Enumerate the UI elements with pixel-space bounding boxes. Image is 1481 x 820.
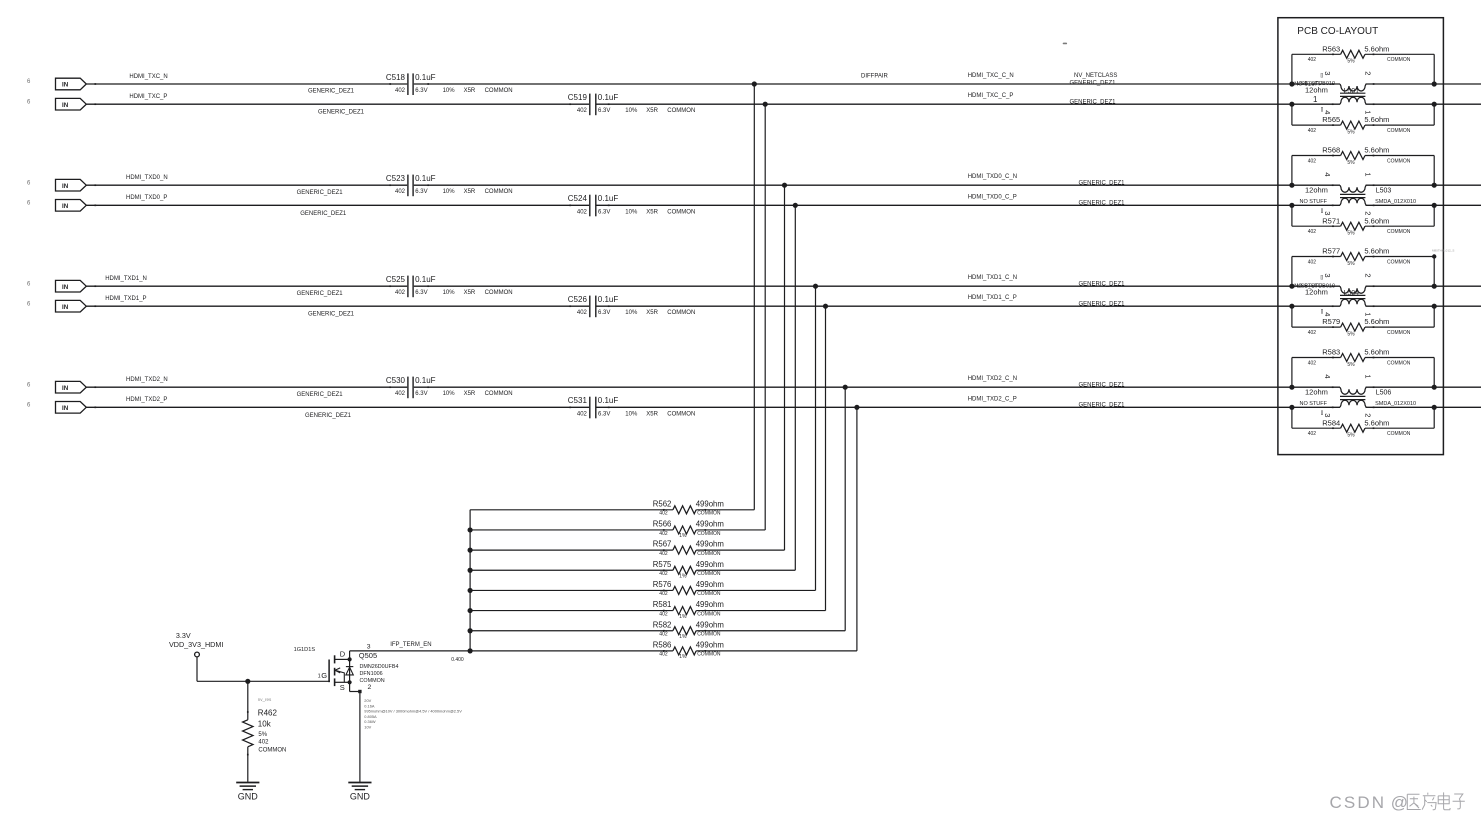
svg-text:5.6ohm: 5.6ohm: [1364, 418, 1389, 427]
svg-text:COMMON: COMMON: [697, 632, 721, 638]
svg-text:HDMI_TXD1_C_P: HDMI_TXD1_C_P: [968, 295, 1017, 301]
svg-text:6.3V: 6.3V: [598, 108, 610, 114]
svg-text:COMMON: COMMON: [1387, 128, 1411, 134]
svg-text:402: 402: [659, 531, 668, 537]
svg-text:3: 3: [1323, 211, 1332, 215]
svg-text:R563: R563: [1322, 44, 1340, 53]
svg-text:1: 1: [1313, 95, 1318, 104]
resistor R565 5.6ohm: [1308, 115, 1411, 135]
junction R579 riser / wire P right: [1432, 304, 1437, 309]
junction R584 riser / wire P right: [1432, 405, 1437, 410]
svg-text:R576: R576: [653, 580, 672, 589]
svg-text:M80THD_012_S: M80THD_012_S: [1432, 249, 1454, 253]
svg-text:1%: 1%: [679, 634, 687, 640]
svg-text:IN: IN: [62, 183, 69, 190]
svg-text:4: 4: [1323, 110, 1332, 114]
junction R583 riser / wire N right: [1432, 385, 1437, 390]
svg-text:COMMON: COMMON: [697, 531, 721, 537]
svg-text:HDMI_TXD0_P: HDMI_TXD0_P: [126, 195, 167, 201]
svg-text:C525: C525: [386, 275, 406, 284]
svg-text:0.16A: 0.16A: [364, 703, 375, 708]
svg-text:402: 402: [659, 551, 668, 557]
wire HDMI_TXD0_N port to C523: [86, 184, 407, 186]
svg-text:0.1uF: 0.1uF: [415, 73, 436, 82]
svg-text:HDMI_TXD2_C_N: HDMI_TXD2_C_N: [968, 376, 1017, 382]
svg-text:HDMI_TXD0_C_N: HDMI_TXD0_C_N: [968, 174, 1017, 180]
svg-text:1: 1: [1364, 312, 1373, 316]
svg-text:COMMON: COMMON: [1387, 360, 1411, 366]
svg-text:0.1uF: 0.1uF: [598, 295, 619, 304]
svg-text:HDMI_TXD1_C_N: HDMI_TXD1_C_N: [968, 275, 1017, 281]
svg-text:COMMON: COMMON: [1387, 330, 1411, 336]
svg-text:R565: R565: [1322, 115, 1340, 124]
svg-text:NO STUFF: NO STUFF: [1300, 199, 1328, 205]
svg-text:2: 2: [368, 684, 372, 691]
svg-text:IFP_TERM_EN: IFP_TERM_EN: [390, 642, 431, 648]
wire termination drop from wire 6: [825, 306, 827, 610]
capacitor C524: [568, 194, 696, 216]
wire R568 right riser: [1433, 156, 1435, 186]
svg-text:995mohm@10V / 3000mohm@4.5V /: 995mohm@10V / 3000mohm@4.5V / 4000mohm@2…: [364, 709, 462, 714]
port IN HDMI_TXD0_N: [55, 179, 96, 191]
wire R567 right lead: [696, 549, 784, 551]
svg-text:R584: R584: [1322, 418, 1340, 427]
svg-text:5.6ohm: 5.6ohm: [1364, 348, 1389, 357]
transistor Q505 DMN26D0UFB4: [318, 643, 399, 692]
ground GND under Q505: [348, 783, 371, 802]
resistor R562 499ohm: [653, 499, 724, 516]
wire R565 rail left: [1292, 124, 1341, 126]
svg-text:HDMI_TXD1_P: HDMI_TXD1_P: [105, 296, 146, 302]
svg-text:10%: 10%: [625, 108, 638, 114]
junction bus / R586: [468, 648, 473, 653]
port IN HDMI_TXD0_P: [55, 200, 96, 212]
svg-text:X5R: X5R: [646, 209, 658, 215]
wire R462 to GND: [247, 747, 249, 782]
svg-text:IN: IN: [62, 405, 69, 412]
wire R584 left riser: [1291, 407, 1293, 428]
svg-text:10%: 10%: [443, 391, 456, 397]
svg-text:5.6ohm: 5.6ohm: [1364, 247, 1389, 256]
svg-text:COMMON: COMMON: [697, 551, 721, 557]
svg-text:5%: 5%: [1347, 332, 1355, 338]
svg-text:6.3V: 6.3V: [415, 290, 427, 296]
svg-text:GENERIC_DEZ1: GENERIC_DEZ1: [1079, 201, 1126, 207]
wire R584 rail right: [1365, 427, 1434, 429]
svg-text:COMMON: COMMON: [1387, 57, 1411, 63]
wire R581 right lead: [696, 610, 825, 612]
wire R575 right lead: [696, 569, 795, 571]
wire termination drop from wire 1: [753, 84, 755, 510]
svg-text:GND: GND: [238, 792, 259, 802]
junction bus / R582: [468, 628, 473, 633]
power flag 3.3V VDD_3V3_HDMI: [169, 631, 223, 681]
svg-text:3: 3: [1323, 413, 1332, 417]
resistor R571 5.6ohm: [1308, 216, 1411, 236]
svg-text:0.1uF: 0.1uF: [415, 174, 436, 183]
inductor L503 common-mode choke: [1300, 172, 1417, 215]
svg-text:499ohm: 499ohm: [696, 580, 724, 589]
wire HDMI_TXD2_P C531 to choke: [597, 406, 1341, 408]
svg-text:10%: 10%: [443, 88, 456, 94]
svg-text:GENERIC_DEZ1: GENERIC_DEZ1: [318, 110, 365, 116]
wire R577 rail left: [1292, 256, 1341, 258]
wire HDMI_TXC_N port to C518: [86, 83, 407, 85]
wire HDMI_TXD1_N port to C525: [86, 285, 407, 287]
svg-text:10k: 10k: [258, 720, 272, 729]
svg-text:5.6ohm: 5.6ohm: [1364, 44, 1389, 53]
svg-text:X5R: X5R: [464, 290, 476, 296]
junction R583 riser / wire N: [1289, 385, 1294, 390]
svg-text:L506: L506: [1376, 389, 1392, 396]
svg-text:DFN1006: DFN1006: [360, 671, 383, 677]
capacitor C518: [386, 73, 513, 95]
svg-text:5.6ohm: 5.6ohm: [1364, 146, 1389, 155]
capacitor C525: [386, 275, 513, 297]
svg-text:SMDA_012X010: SMDA_012X010: [1375, 401, 1416, 407]
junction HDMI_TXD1_P / termination drop: [823, 304, 828, 309]
svg-text:3: 3: [1323, 71, 1332, 75]
inductor L506 common-mode choke: [1300, 374, 1417, 417]
svg-text:COMMON: COMMON: [697, 591, 721, 597]
wire R563 rail left: [1292, 53, 1341, 55]
svg-text:3.3V: 3.3V: [176, 631, 191, 640]
wire HDMI_TXD1_N choke to right edge: [1366, 285, 1481, 287]
inductor L504 common-mode choke: [1294, 273, 1374, 316]
svg-text:20V: 20V: [364, 698, 371, 703]
resistor R563 5.6ohm: [1308, 44, 1411, 64]
port IN HDMI_TXD1_P: [55, 300, 96, 312]
wire termination drop from wire 2: [764, 104, 766, 530]
resistor R566 499ohm: [653, 520, 724, 540]
resistor R581 499ohm: [653, 600, 724, 620]
svg-text:402: 402: [1308, 431, 1317, 437]
svg-text:Q505: Q505: [359, 651, 377, 660]
wire R563 right riser: [1433, 54, 1435, 84]
capacitor C531: [568, 396, 696, 418]
svg-text:VDD_3V3_HDMI: VDD_3V3_HDMI: [169, 640, 223, 649]
svg-text:HDMI_TXC_P: HDMI_TXC_P: [129, 94, 167, 100]
resistor R583 5.6ohm: [1308, 348, 1411, 368]
svg-text:COMMON: COMMON: [258, 748, 286, 754]
svg-text:10%: 10%: [443, 290, 456, 296]
svg-text:COMMON: COMMON: [1387, 431, 1411, 437]
svg-text:HDMI_TXD2_N: HDMI_TXD2_N: [126, 377, 168, 383]
svg-text:5%: 5%: [1347, 59, 1355, 65]
svg-text:402: 402: [577, 411, 588, 417]
wire R565 rail right: [1365, 124, 1434, 126]
svg-text:402: 402: [577, 209, 588, 215]
resistor R568 5.6ohm: [1308, 146, 1411, 166]
svg-text:402: 402: [1308, 128, 1317, 134]
wire HDMI_TXD1_N C525 to choke: [414, 285, 1340, 287]
junction bus / R566: [468, 527, 473, 532]
svg-text:D: D: [340, 649, 346, 658]
svg-text:402: 402: [659, 571, 668, 577]
wire R577 left riser: [1291, 257, 1293, 287]
svg-text:1%: 1%: [679, 533, 687, 539]
wire HDMI_TXD2_P port to C531: [86, 406, 589, 408]
svg-text:GENERIC_DEZ1: GENERIC_DEZ1: [1070, 99, 1117, 105]
svg-text:5%: 5%: [258, 732, 267, 738]
wire HDMI_TXD0_P choke to right edge: [1366, 204, 1481, 206]
svg-text:COMMON: COMMON: [697, 511, 721, 517]
svg-text:HDMI_TXC_C_N: HDMI_TXC_C_N: [968, 73, 1014, 79]
svg-text:X5R: X5R: [464, 88, 476, 94]
wire HDMI_TXD0_P port to C524: [86, 204, 589, 206]
svg-text:2: 2: [1364, 413, 1373, 417]
svg-text:5%: 5%: [1347, 433, 1355, 439]
svg-text:R581: R581: [653, 600, 672, 609]
svg-text:1: 1: [1364, 374, 1373, 378]
svg-text:C524: C524: [568, 194, 588, 203]
junction R584 riser / wire P: [1289, 405, 1294, 410]
svg-text:GENERIC_DEZ1: GENERIC_DEZ1: [1079, 403, 1126, 409]
svg-text:GENERIC_DEZ1: GENERIC_DEZ1: [308, 89, 355, 95]
junction R571 riser / wire P right: [1432, 203, 1437, 208]
svg-text:1: 1: [318, 673, 321, 679]
svg-text:R577: R577: [1322, 247, 1340, 256]
svg-text:GENERIC_DEZ1: GENERIC_DEZ1: [1070, 80, 1117, 86]
svg-text:R583: R583: [1322, 348, 1340, 357]
svg-text:10%: 10%: [625, 310, 638, 316]
svg-text:COMMON: COMMON: [485, 290, 513, 296]
resistor R582 499ohm: [653, 620, 724, 640]
wire R581 left lead: [470, 610, 673, 612]
svg-text:C523: C523: [386, 174, 406, 183]
svg-text:R566: R566: [653, 520, 672, 529]
svg-text:499ohm: 499ohm: [696, 520, 724, 529]
wire R579 left riser: [1291, 306, 1293, 327]
svg-text:6.3V: 6.3V: [415, 391, 427, 397]
svg-text:402: 402: [577, 310, 588, 316]
port IN HDMI_TXD1_N: [55, 280, 96, 292]
svg-text:4: 4: [1323, 172, 1332, 176]
junction R568 riser / wire N right: [1432, 183, 1437, 188]
svg-text:C518: C518: [386, 73, 406, 82]
svg-text:GENERIC_DEZ1: GENERIC_DEZ1: [305, 413, 352, 419]
svg-text:R575: R575: [653, 560, 672, 569]
capacitor C526: [568, 295, 696, 317]
svg-text:R586: R586: [653, 640, 672, 649]
svg-text:IN: IN: [62, 385, 69, 392]
svg-text:5%: 5%: [1347, 160, 1355, 166]
svg-text:COMMON: COMMON: [697, 611, 721, 617]
svg-text:IN: IN: [62, 102, 69, 109]
svg-text:402: 402: [659, 652, 668, 658]
resistor R586 499ohm: [653, 640, 724, 660]
svg-text:C519: C519: [568, 93, 588, 102]
svg-text:R462: R462: [258, 709, 278, 718]
svg-text:6.3V: 6.3V: [415, 88, 427, 94]
svg-text:402: 402: [659, 511, 668, 517]
svg-text:X5R: X5R: [646, 411, 658, 417]
svg-text:0.1uF: 0.1uF: [598, 396, 619, 405]
svg-text:R579: R579: [1322, 317, 1340, 326]
svg-text:L504: L504: [1344, 290, 1360, 297]
wire R571 rail left: [1292, 225, 1341, 227]
svg-text:402: 402: [1308, 330, 1317, 336]
capacitor C530: [386, 376, 513, 398]
svg-text:402: 402: [395, 391, 406, 397]
junction R568 riser / wire N: [1289, 183, 1294, 188]
svg-text:402: 402: [659, 611, 668, 617]
watermark CSDN @medical electronics: [1330, 792, 1465, 812]
svg-text:499ohm: 499ohm: [696, 540, 724, 549]
svg-text:R562: R562: [653, 499, 672, 508]
wire termination drop from wire 8: [856, 407, 858, 651]
wire R582 right lead: [696, 630, 845, 632]
svg-text:HDMI_TXC_N: HDMI_TXC_N: [129, 74, 167, 80]
svg-text:HDMI_TXD0_C_P: HDMI_TXD0_C_P: [968, 194, 1017, 200]
svg-text:HDMI_TXD1_N: HDMI_TXD1_N: [105, 276, 147, 282]
junction R571 riser / wire P: [1289, 203, 1294, 208]
svg-text:499ohm: 499ohm: [696, 620, 724, 629]
svg-text:499ohm: 499ohm: [696, 499, 724, 508]
svg-text:HDMI_TXD2_C_P: HDMI_TXD2_C_P: [968, 396, 1017, 402]
capacitor C519: [568, 93, 696, 115]
svg-text:HDMI_TXC_C_P: HDMI_TXC_C_P: [968, 93, 1014, 99]
svg-text:1: 1: [1364, 110, 1373, 114]
wire HDMI_TXD1_P port to C526: [86, 305, 589, 307]
svg-text:6.3V: 6.3V: [598, 411, 610, 417]
svg-text:10%: 10%: [625, 209, 638, 215]
svg-text:5.6ohm: 5.6ohm: [1364, 115, 1389, 124]
resistor R577 5.6ohm: [1308, 247, 1411, 267]
wire termination drop from wire 7: [844, 387, 846, 631]
svg-text:402: 402: [1308, 229, 1317, 235]
svg-text:C531: C531: [568, 396, 588, 405]
wire R568 rail left: [1292, 155, 1341, 157]
wire R584 right riser: [1433, 407, 1435, 428]
junction bus / R576: [468, 588, 473, 593]
svg-text:@: @: [1391, 793, 1408, 812]
svg-text:10%: 10%: [625, 411, 638, 417]
resistor R575 499ohm: [653, 560, 724, 580]
svg-text:L503: L503: [1376, 187, 1392, 194]
svg-text:12ohm: 12ohm: [1305, 85, 1328, 94]
svg-text:[]: []: [1321, 275, 1324, 280]
svg-text:DIFFPAIR: DIFFPAIR: [861, 73, 889, 79]
svg-text:L501: L501: [1344, 88, 1360, 95]
svg-text:COMMON: COMMON: [667, 411, 695, 417]
svg-text:IN: IN: [62, 203, 69, 210]
wire R579 right riser: [1433, 306, 1435, 327]
resistor R576 499ohm: [653, 580, 724, 597]
svg-text:402: 402: [577, 108, 588, 114]
wire R562 right lead: [696, 509, 754, 511]
transistor Q505 parameter block: [364, 698, 462, 730]
svg-text:0.1uF: 0.1uF: [415, 275, 436, 284]
wire R583 rail right: [1365, 357, 1434, 359]
svg-text:COMMON: COMMON: [1387, 259, 1411, 265]
svg-text:402: 402: [1308, 259, 1317, 265]
svg-text:C526: C526: [568, 295, 588, 304]
port IN HDMI_TXD2_N: [55, 381, 96, 393]
svg-text:0.1uF: 0.1uF: [598, 194, 619, 203]
wire R563 left riser: [1291, 54, 1293, 84]
svg-text:COMMON: COMMON: [697, 571, 721, 577]
svg-text:CSDN: CSDN: [1330, 793, 1387, 812]
wire R577 rail right: [1365, 256, 1434, 258]
junction HDMI_TXD2_N / termination drop: [843, 385, 848, 390]
svg-text:[]: []: [1321, 73, 1324, 78]
svg-text:499ohm: 499ohm: [696, 640, 724, 649]
svg-text:X5R: X5R: [464, 189, 476, 195]
svg-text:1%: 1%: [679, 654, 687, 660]
svg-text:HDMI_TXD2_P: HDMI_TXD2_P: [126, 397, 167, 403]
svg-text:12ohm: 12ohm: [1305, 288, 1328, 297]
svg-text:GENERIC_DEZ1: GENERIC_DEZ1: [297, 392, 344, 398]
resistor R567 499ohm: [653, 540, 724, 557]
wire R565 left riser: [1291, 104, 1293, 125]
svg-text:COMMON: COMMON: [485, 88, 513, 94]
inductor L501 common-mode choke: [1294, 71, 1374, 114]
ground GND under R462: [236, 783, 259, 802]
svg-text:402: 402: [258, 740, 269, 746]
svg-text:6.3V: 6.3V: [415, 189, 427, 195]
svg-text:COMMON: COMMON: [1387, 229, 1411, 235]
wire HDMI_TXC_P port to C519: [86, 103, 589, 105]
wire R566 left lead: [470, 529, 673, 531]
wire R462 top lead: [247, 681, 249, 720]
junction HDMI_TXC_N / termination drop: [752, 81, 757, 86]
wire R568 rail right: [1365, 155, 1434, 157]
wire R571 left riser: [1291, 205, 1293, 226]
svg-text:1G1D1S: 1G1D1S: [294, 647, 316, 653]
svg-text:10%: 10%: [443, 189, 456, 195]
svg-text:6.3V: 6.3V: [598, 209, 610, 215]
svg-text:3: 3: [367, 643, 371, 650]
svg-text:COMMON: COMMON: [1387, 158, 1411, 164]
wire HDMI_TXC_N choke to right edge: [1366, 83, 1481, 85]
wire R562 left lead: [470, 509, 673, 511]
wire HDMI_TXD2_P choke to right edge: [1366, 406, 1481, 408]
junction VDD wire / R462: [245, 679, 250, 684]
svg-text:GENERIC_DEZ1: GENERIC_DEZ1: [1079, 382, 1126, 388]
junction R565 riser / wire P right: [1432, 102, 1437, 107]
svg-text:1: 1: [1364, 172, 1373, 176]
wire R582 left lead: [470, 630, 673, 632]
svg-text:X5R: X5R: [464, 391, 476, 397]
port IN HDMI_TXD2_P: [55, 402, 96, 414]
svg-text:402: 402: [659, 632, 668, 638]
svg-text:5%: 5%: [1347, 261, 1355, 267]
wire Q505 source to GND: [350, 682, 362, 782]
junction R563 riser / wire N right: [1432, 81, 1437, 86]
wire termination drop from wire 5: [815, 286, 817, 590]
junction bus / R581: [468, 608, 473, 613]
junction R577 riser / wire N right: [1432, 284, 1437, 289]
svg-text:3: 3: [1323, 273, 1332, 277]
PCB CO-LAYOUT box: [1278, 18, 1444, 455]
wire HDMI_TXD2_N C530 to choke: [414, 386, 1340, 388]
wire R576 left lead: [470, 589, 673, 591]
svg-text:nv_res: nv_res: [258, 697, 272, 702]
svg-text:NO STUFF: NO STUFF: [1300, 401, 1328, 407]
svg-text:DMN26D0UFB4: DMN26D0UFB4: [360, 664, 399, 670]
svg-text:GENERIC_DEZ1: GENERIC_DEZ1: [1079, 180, 1126, 186]
wire HDMI_TXD1_P C526 to choke: [597, 305, 1341, 307]
svg-text:COMMON: COMMON: [667, 209, 695, 215]
svg-text:GND: GND: [350, 792, 371, 802]
svg-text:IN: IN: [62, 284, 69, 291]
resistor R579 5.6ohm: [1308, 317, 1411, 337]
svg-text:R582: R582: [653, 620, 672, 629]
svg-text:GENERIC_DEZ1: GENERIC_DEZ1: [308, 312, 355, 318]
svg-text:1%: 1%: [679, 573, 687, 579]
junction R577 riser / wire N: [1289, 284, 1294, 289]
